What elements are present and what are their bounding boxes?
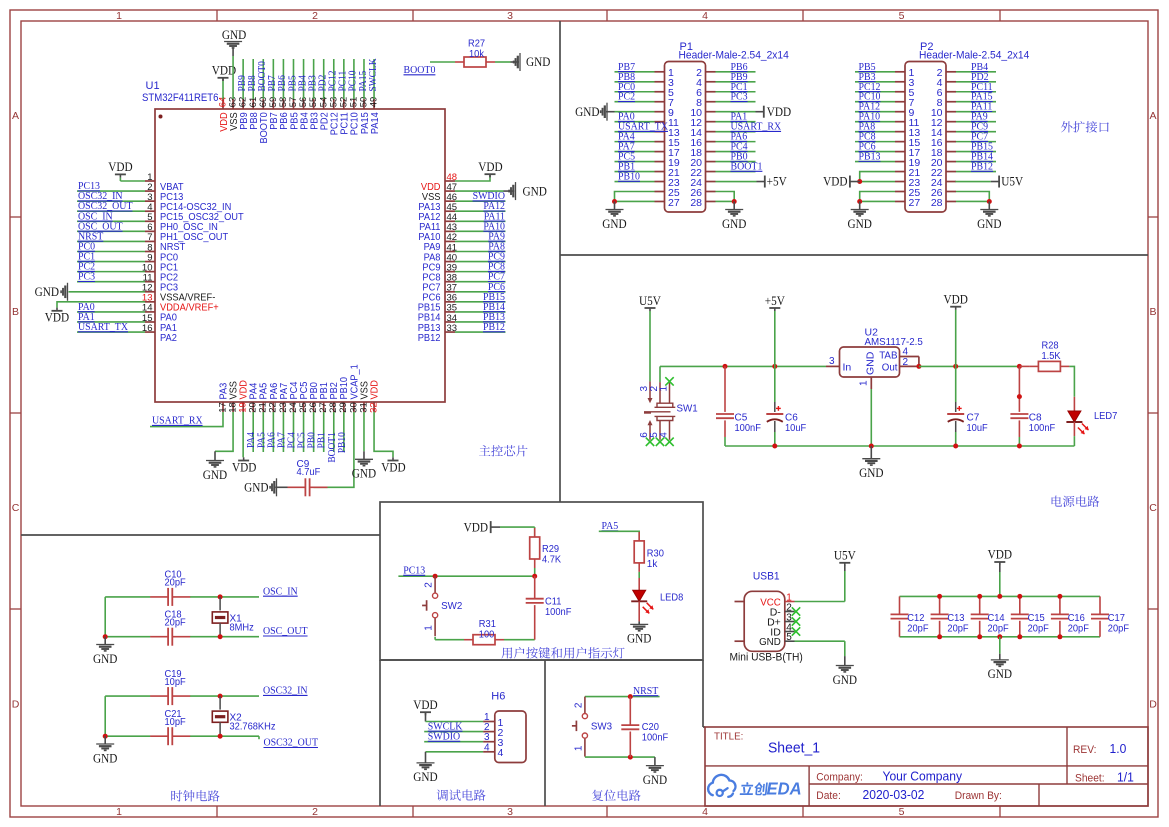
P1 pin2 net PB6 (716, 71, 756, 73)
wire bottom rail (725, 445, 1074, 447)
junction rail C6 (772, 364, 777, 369)
switch SW2 (434, 576, 436, 593)
svg-text:LED8: LED8 (660, 593, 684, 604)
svg-text:R30: R30 (647, 548, 664, 559)
P1 pin11 net PA0 (615, 121, 655, 123)
divider horizontal P1P2 bottom (560, 254, 1148, 256)
power flag GND at R27 (511, 61, 520, 63)
svg-text:VDD: VDD (823, 175, 847, 189)
net NRST wire (585, 696, 660, 698)
svg-text:VDD: VDD (232, 461, 256, 475)
svg-text:20pF: 20pF (907, 623, 928, 634)
caption debug circuit (437, 790, 448, 801)
svg-text:GND: GND (352, 467, 376, 481)
switch SW1 (649, 381, 651, 398)
net SWDIO wire (424, 741, 483, 743)
P1 pin14 net USART_RX (716, 131, 756, 133)
svg-text:GND: GND (93, 652, 117, 666)
svg-text:PB12: PB12 (418, 333, 441, 344)
svg-text:20pF: 20pF (1108, 623, 1129, 634)
svg-text:20pF: 20pF (988, 623, 1009, 634)
junction clock top (218, 694, 223, 699)
wire clock left vertical (104, 597, 106, 637)
led LED7 (1073, 397, 1075, 411)
caption reset circuit (592, 790, 603, 801)
svg-text:PA5: PA5 (602, 520, 619, 532)
wire R31 to C11 (504, 639, 535, 641)
svg-text:VDD: VDD (988, 548, 1012, 562)
svg-text:R28: R28 (1042, 341, 1059, 352)
wire SW2 to R31 (434, 637, 436, 640)
wire USB GND (795, 640, 845, 642)
caption user key and led (502, 647, 513, 658)
U1 pin 26 PB0 (313, 402, 315, 412)
svg-text:GND: GND (627, 632, 651, 646)
P1 left GND comb (615, 192, 655, 202)
power flag GND at U1 pin12 (69, 291, 146, 293)
net BOOT0 label (430, 61, 455, 63)
svg-text:C16: C16 (1068, 613, 1085, 624)
power flag GND at U1 pin18 (215, 412, 233, 451)
P1 pins 17/18 (655, 151, 665, 153)
P1 pin4 net PB9 (716, 81, 756, 83)
P2 pin3 net PB3 (855, 81, 895, 83)
H6 pin 1 (483, 721, 495, 723)
svg-text:GND: GND (222, 28, 246, 42)
wire VCAP_1 to C9 (314, 412, 354, 487)
wire R28 to LED7 (1069, 366, 1074, 396)
svg-text:1: 1 (424, 625, 435, 631)
P1 pins 15/16 (655, 141, 665, 143)
P2 pin10 net PA11 (956, 111, 996, 113)
P1 pin7 net PC2 (615, 101, 655, 103)
svg-text:GND: GND (977, 217, 1001, 231)
svg-text:100nF: 100nF (642, 733, 668, 744)
P2 right GND comb (956, 192, 989, 202)
svg-text:VDD: VDD (413, 698, 437, 712)
svg-text:U5V: U5V (1001, 175, 1023, 189)
P1 pins 5/6 (655, 91, 665, 93)
svg-text:C14: C14 (988, 613, 1005, 624)
svg-text:GND: GND (523, 184, 547, 198)
U1 pin 11 PC3 (145, 281, 155, 283)
svg-text:U5V: U5V (639, 294, 661, 308)
wire SW3 bottom (585, 756, 655, 758)
resistor R30 (634, 541, 644, 563)
capacitor C21 (167, 727, 169, 745)
capacitor C8 (1018, 366, 1020, 412)
svg-text:USB1: USB1 (753, 571, 780, 583)
P2 pin11 net PA10 (855, 121, 895, 123)
svg-text:20pF: 20pF (1068, 623, 1089, 634)
U1 pin 63 VSS (232, 99, 234, 109)
svg-text:C12: C12 (907, 613, 924, 624)
svg-text:GND: GND (602, 217, 626, 231)
power flag +5V at P1 pin24 (716, 181, 757, 183)
svg-text:4: 4 (658, 432, 669, 438)
junction clock bottom xtal (218, 734, 223, 739)
svg-text:SWCLK: SWCLK (368, 58, 379, 91)
svg-text:C6: C6 (785, 413, 798, 424)
power flag VDD at U1 pin13 (57, 302, 145, 308)
svg-text:U1: U1 (146, 80, 160, 92)
U1 pin 50 PA15 (363, 99, 365, 109)
P2 pins 25/26 (895, 191, 905, 193)
capacitor C5 (724, 366, 726, 412)
U1 pin 44 PA11 (445, 220, 455, 222)
svg-text:C20: C20 (642, 722, 659, 733)
U1 pin 23 PA7 (282, 402, 284, 412)
P1 pin8 net PC3 (716, 101, 756, 103)
junction bottom U2 (869, 444, 874, 449)
H6 pin 3 (483, 741, 495, 743)
U1 pin 10 PC2 (145, 271, 155, 273)
capacitor C7 (955, 366, 957, 402)
svg-text:TAB: TAB (879, 350, 897, 362)
svg-text:C15: C15 (1028, 613, 1045, 624)
svg-text:C7: C7 (967, 413, 980, 424)
power flag U5V at P2 pin24 (956, 181, 991, 183)
P2 pin5 net PC12 (855, 91, 895, 93)
svg-text:20pF: 20pF (165, 578, 186, 589)
P2 pin20 net PB14 (956, 161, 996, 163)
power flag GND at USB1 (844, 656, 846, 665)
divider vertical x560 (559, 21, 561, 502)
wire cap bank bottom rail (900, 636, 1101, 638)
svg-text:VDD: VDD (45, 311, 69, 325)
svg-text:D: D (12, 699, 20, 711)
P2 pin18 net PB15 (956, 151, 996, 153)
capacitor C17 (1099, 596, 1101, 614)
U1 pin 27 PB1 (323, 402, 325, 412)
svg-text:In: In (843, 362, 852, 374)
power flag VDD at U1 pin64 (222, 81, 224, 99)
U1 pin 62 PB9 (242, 99, 244, 109)
svg-text:20pF: 20pF (1028, 623, 1049, 634)
connector P1 body (665, 62, 706, 213)
svg-text:4: 4 (903, 347, 909, 358)
P2 left GND comb (860, 192, 895, 202)
svg-text:SWDIO: SWDIO (428, 731, 460, 743)
svg-text:PA2: PA2 (160, 333, 177, 344)
capacitor C15 (1019, 596, 1021, 614)
capacitor C14 (979, 596, 981, 614)
U1 pin 48 VDD (445, 180, 455, 182)
U1 pin 18 VSS (232, 402, 234, 412)
power flag GND at SW3 (654, 757, 656, 766)
P1 pin5 net PC0 (615, 91, 655, 93)
U1 pin 25 PC5 (303, 402, 305, 412)
P1 pin12 net PA1 (716, 121, 756, 123)
P2 pin6 net PC11 (956, 91, 996, 93)
U1 pin 9 PC1 (145, 261, 155, 263)
svg-text:LED7: LED7 (1094, 411, 1118, 422)
U1 pin 12 VSSA/VREF- (145, 291, 155, 293)
svg-text:USART_RX: USART_RX (152, 415, 203, 427)
svg-text:8MHz: 8MHz (230, 622, 254, 633)
svg-text:4: 4 (484, 742, 490, 753)
U1 pin 34 PB13 (445, 321, 455, 323)
junction C20 bottom (628, 755, 633, 760)
U1 pin 60 BOOT0 (262, 99, 264, 109)
resistor R28 (1019, 365, 1029, 367)
U1 pin 5 PH0_OSC_IN (145, 220, 155, 222)
P1 pin19 net PC5 (615, 161, 655, 163)
wire clock bottom (105, 636, 150, 638)
svg-text:GND: GND (848, 217, 872, 231)
U1 pin 14 PA0 (145, 311, 155, 313)
svg-text:R29: R29 (542, 544, 559, 555)
P1 pin20 net PB0 (716, 161, 756, 163)
svg-text:100nF: 100nF (545, 607, 571, 618)
power flag VDD at P2 pin21/23 (860, 181, 895, 183)
regulator U2 body (840, 347, 900, 377)
svg-text:VDD: VDD (108, 160, 132, 174)
power flag GND at U2 (870, 446, 872, 459)
svg-text:NRST: NRST (633, 685, 659, 697)
svg-text:GND: GND (244, 481, 268, 495)
junction clock bottom left (103, 634, 108, 639)
svg-text:+5V: +5V (765, 294, 785, 308)
svg-text:1/1: 1/1 (1117, 769, 1134, 784)
svg-text:10uF: 10uF (785, 423, 806, 434)
svg-text:10k: 10k (469, 49, 485, 60)
power flag VDD at U1 pin48 (455, 177, 490, 181)
power flag GND clock (104, 736, 106, 744)
net SWCLK wire (424, 731, 483, 733)
resistor R31 (473, 635, 495, 645)
U1 pin 37 PC6 (445, 291, 455, 293)
P2 pin13 net PA8 (855, 131, 895, 133)
U1 pin 15 PA1 (145, 321, 155, 323)
svg-text:PB12: PB12 (971, 161, 993, 173)
power flag GND at U1 pin47 (455, 190, 504, 192)
U1 pin 21 PA5 (262, 402, 264, 412)
U1 pin 28 PB2 (333, 402, 335, 412)
P1 pin23 net PB10 (615, 181, 655, 183)
P1 pin17 net PA7 (615, 151, 655, 153)
resistor R29 (534, 527, 536, 537)
U1 pin 41 PA8 (445, 250, 455, 252)
svg-text:EDA: EDA (767, 778, 802, 798)
svg-text:GND: GND (575, 105, 599, 119)
U1 pin 1 VBAT (145, 180, 155, 182)
svg-text:4.7K: 4.7K (542, 555, 561, 566)
P2 pin12 net PA9 (956, 121, 996, 123)
wire main rail (660, 365, 826, 367)
svg-text:B: B (12, 306, 19, 318)
svg-text:GND: GND (988, 667, 1012, 681)
logo lceda (708, 775, 735, 795)
P2 pins 27/28 (895, 200, 905, 202)
title block grid (705, 727, 1148, 806)
svg-text:Sheet_1: Sheet_1 (768, 740, 820, 757)
P1 pin1 net PB7 (615, 71, 655, 73)
P2 pins 7/8 (895, 101, 905, 103)
wire clock top (105, 596, 150, 598)
U1 pin 29 PB10 (343, 402, 345, 412)
U1 pin 35 PB14 (445, 311, 455, 313)
P2 pins 15/16 (895, 141, 905, 143)
svg-text:Date:: Date: (816, 790, 841, 802)
P2 pin4 net PD2 (956, 81, 996, 83)
svg-text:2: 2 (903, 357, 909, 368)
svg-text:Header-Male-2.54_2x14: Header-Male-2.54_2x14 (919, 50, 1029, 62)
U1 pin 51 PC10 (353, 99, 355, 109)
divider horizontal debug top (380, 659, 703, 661)
svg-text:20pF: 20pF (947, 623, 968, 634)
svg-text:4.7uF: 4.7uF (297, 467, 321, 478)
U1 pin 64 VDD (222, 99, 224, 109)
svg-text:GND: GND (722, 217, 746, 231)
connector P2 body (905, 62, 946, 213)
divider horizontal main-chip bottom (21, 534, 380, 536)
USB1 mount pins (735, 601, 745, 603)
svg-text:28: 28 (931, 197, 943, 209)
P1 pin16 net PA6 (716, 141, 756, 143)
H6 pin 2 (483, 731, 495, 733)
U1 pin 6 PH1_OSC_OUT (145, 230, 155, 232)
svg-text:GND: GND (413, 770, 437, 784)
svg-text:PB10: PB10 (337, 432, 348, 453)
svg-text:SW3: SW3 (591, 720, 612, 732)
U1 pin 2 PC13 (145, 190, 155, 192)
power flag VDD at U1 pin1 (120, 180, 145, 182)
svg-text:GND: GND (643, 773, 667, 787)
svg-text:32.768KHz: 32.768KHz (230, 722, 276, 733)
U1 pin 17 PA3 (222, 402, 224, 412)
power flag GND at LED8 (638, 621, 640, 624)
H6 pin 4 (483, 751, 495, 753)
svg-text:GND: GND (35, 285, 59, 299)
capacitor C13 (939, 596, 941, 614)
U1 pin 54 PD2 (323, 99, 325, 109)
junction PC13 R29 (532, 574, 537, 579)
junction rail C5 (723, 364, 728, 369)
capacitor C20 (629, 697, 631, 725)
svg-text:R27: R27 (468, 39, 485, 50)
P2 pin14 net PC9 (956, 131, 996, 133)
U1 pin 40 PC9 (445, 261, 455, 263)
wire clock bottom (105, 735, 150, 737)
svg-text:10pF: 10pF (165, 717, 186, 728)
P2 pins 13/14 (895, 131, 905, 133)
U1 pin 42 PA9 (445, 240, 455, 242)
junction bottom C6 (772, 444, 777, 449)
P2 pin9 net PA12 (855, 111, 895, 113)
svg-text:REV:: REV: (1073, 744, 1097, 756)
U1 pin 20 PA4 (252, 402, 254, 412)
divider horizontal usb bottom (703, 726, 705, 728)
svg-text:PC2: PC2 (618, 91, 635, 103)
U1 pin 7 NRST (145, 240, 155, 242)
P1 pins 1/2 (655, 71, 665, 73)
svg-text:3: 3 (829, 356, 835, 367)
P1 pins 23/24 (655, 181, 665, 183)
svg-text:1: 1 (658, 386, 669, 392)
svg-text:STM32F411RET6: STM32F411RET6 (142, 92, 218, 104)
P2 pin7 net PC10 (855, 101, 895, 103)
power flag GND at P1 pin9 (615, 111, 655, 113)
svg-text:GND: GND (203, 468, 227, 482)
capacitor C10 (167, 588, 169, 606)
U1 pin 8 PC0 (145, 250, 155, 252)
caption expansion port (1061, 121, 1072, 132)
svg-text:27: 27 (668, 197, 680, 209)
power flag GND at U1 pin63 (232, 56, 234, 99)
wire rail right (919, 365, 1020, 367)
P1 right GND comb (716, 192, 735, 202)
svg-text:PC3: PC3 (78, 271, 96, 283)
junction NRST C20 (628, 694, 633, 699)
power flag VDD at U1 pin32 (374, 412, 393, 457)
svg-text:C17: C17 (1108, 613, 1125, 624)
svg-text:BOOT1: BOOT1 (731, 161, 763, 173)
svg-text:D: D (1149, 699, 1157, 711)
junction bottom C8 (1017, 444, 1022, 449)
svg-text:5: 5 (899, 10, 905, 22)
svg-text:VDD: VDD (369, 380, 380, 399)
P1 pin21 net PB1 (615, 171, 655, 173)
U1 pin 30 VCAP_1 (353, 402, 355, 412)
IC U1 STM32F411RET6 body (155, 109, 445, 402)
svg-text:Company:: Company: (816, 772, 863, 784)
U1 pin 49 PA14 (373, 99, 375, 109)
P1 pins 27/28 (655, 200, 665, 202)
wire clock left vertical (104, 696, 106, 736)
U1 pin 47 VSS (445, 190, 455, 192)
capacitor C16 (1059, 596, 1061, 614)
svg-text:1.5K: 1.5K (1042, 351, 1061, 362)
svg-text:C13: C13 (947, 613, 964, 624)
P1 pins 3/4 (655, 81, 665, 83)
junction C8 top (1017, 364, 1022, 369)
svg-text:3: 3 (507, 10, 513, 22)
svg-text:5: 5 (786, 632, 792, 643)
junction clock bottom left (103, 734, 108, 739)
svg-text:OSC32_IN: OSC32_IN (263, 685, 308, 697)
P2 pins 17/18 (895, 151, 905, 153)
U1 pin 36 PB15 (445, 301, 455, 303)
wire R27 to GND (495, 61, 511, 63)
svg-text:Out: Out (882, 362, 898, 374)
P1 pins 21/22 (655, 171, 665, 173)
junction GND bottom rail (997, 634, 1002, 639)
U1 pin 46 PA13 (445, 200, 455, 202)
net PC13 wire (398, 575, 534, 577)
svg-text:PB13: PB13 (859, 151, 881, 163)
svg-text:OSC_OUT: OSC_OUT (263, 625, 308, 637)
svg-text:VDD: VDD (944, 293, 968, 307)
svg-text:Drawn By:: Drawn By: (955, 790, 1002, 802)
junction VDD rail (953, 364, 958, 369)
P2 pins 3/4 (895, 81, 905, 83)
crystal X1 (219, 597, 221, 611)
power flag VDD at P1 pin10 (716, 111, 756, 113)
svg-text:OSC_IN: OSC_IN (263, 585, 298, 597)
junction clock bottom xtal (218, 634, 223, 639)
svg-text:PA14: PA14 (370, 112, 381, 134)
U1 pin 59 PB7 (272, 99, 274, 109)
svg-text:PB12: PB12 (483, 321, 505, 333)
divider vertical clock/debug x380 (379, 660, 381, 806)
U1 pin 58 PB6 (282, 99, 284, 109)
power flag GND cap bank (999, 637, 1001, 654)
svg-text:GND: GND (833, 673, 857, 687)
svg-text:27: 27 (909, 197, 921, 209)
svg-text:GND: GND (859, 466, 883, 480)
P2 pin8 net PA15 (956, 101, 996, 103)
